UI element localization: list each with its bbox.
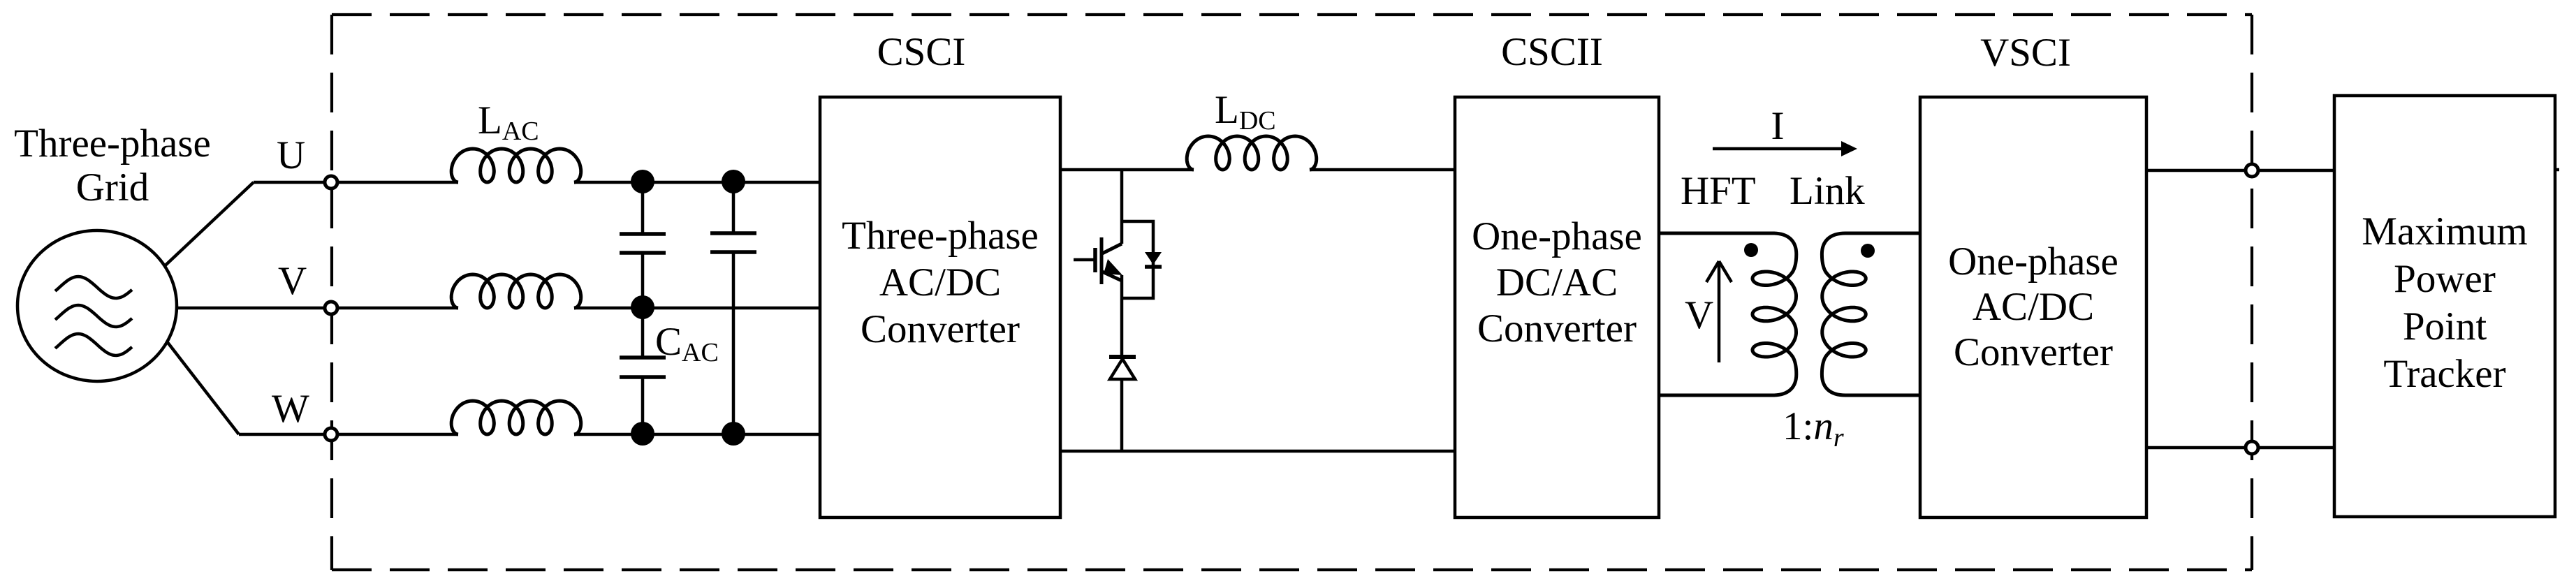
dashed boundary bottom <box>332 568 2252 571</box>
wire VSCI to MPPT bottom <box>2146 446 2334 450</box>
svg-text:DC/AC: DC/AC <box>1496 260 1618 304</box>
wire V left segment <box>331 307 458 310</box>
grid sine wave 2 <box>55 305 132 327</box>
IGBT Q1 gate bar <box>1093 248 1097 272</box>
wire grid to node U (angled) <box>157 182 254 273</box>
capacitor C_AC 2 (V-W) plates <box>620 355 666 360</box>
svg-text:One-phase: One-phase <box>1472 214 1642 258</box>
capacitor branch right vertical segments <box>732 182 736 233</box>
svg-text:AC/DC: AC/DC <box>1973 285 2094 329</box>
svg-text:CSCI: CSCI <box>877 30 966 74</box>
inductor L_DC <box>1187 136 1317 170</box>
diode D1 (antiparallel) <box>1145 252 1162 265</box>
svg-text:Point: Point <box>2403 304 2487 348</box>
dashed boundary left <box>330 15 333 570</box>
svg-text:Grid: Grid <box>76 166 149 209</box>
svg-text:AC/DC: AC/DC <box>879 260 1001 304</box>
svg-text:HFT: HFT <box>1681 169 1756 213</box>
svg-text:V: V <box>278 259 307 303</box>
capacitor branch left vertical segments <box>641 182 645 234</box>
svg-text:Converter: Converter <box>1954 330 2113 374</box>
wire DC+ rail L_DC to CSCII <box>1310 168 1455 172</box>
wire VSCI to MPPT top <box>2146 169 2334 172</box>
svg-text:Converter: Converter <box>861 307 1020 351</box>
svg-text:One-phase: One-phase <box>1948 240 2118 284</box>
svg-text:Three-phase: Three-phase <box>842 214 1039 258</box>
IGBT Q1 gate lead <box>1074 258 1094 262</box>
svg-text:Link: Link <box>1790 169 1865 213</box>
wire grid to node W (angled) <box>157 329 239 434</box>
wire grid to node V <box>171 307 331 310</box>
three-phase grid source G1 (circle) <box>17 230 177 381</box>
wire W left segment <box>239 433 458 436</box>
IGBT Q1 emitter lead with arrow <box>1102 272 1122 281</box>
svg-text:CSCII: CSCII <box>1501 30 1603 74</box>
transformer primary polarity dot <box>1744 243 1758 257</box>
wire stub MPPT right edge <box>2555 168 2559 172</box>
grid sine wave 1 <box>55 277 132 298</box>
wire DC+ rail CSCI to L_DC <box>1060 168 1194 172</box>
wire U right segment <box>574 181 820 184</box>
dashed boundary right <box>2251 15 2253 570</box>
junction dot (920,622) <box>631 422 654 446</box>
wire IGBT emitter vertical <box>1120 275 1124 298</box>
capacitor C_AC 3 (U-W) plates <box>710 231 756 235</box>
block CSCII rectangle <box>1455 97 1659 517</box>
junction dot (1050,622) <box>722 422 745 446</box>
junction dot (920,261) <box>631 170 654 193</box>
transformer secondary polarity dot <box>1861 244 1875 258</box>
grid sine wave 3 <box>55 334 132 355</box>
svg-text:V: V <box>1685 293 1713 337</box>
svg-text:Power: Power <box>2394 257 2496 301</box>
IGBT Q1 collector lead <box>1102 244 1122 253</box>
wire antiparallel branch <box>1122 221 1153 298</box>
wire to diode D2 <box>1120 298 1124 357</box>
junction dot (1050,261) <box>722 170 745 193</box>
inductor L_AC phase V <box>451 274 581 308</box>
svg-text:Tracker: Tracker <box>2383 352 2505 396</box>
wire diode D2 to DC- rail <box>1120 381 1124 451</box>
transformer HFT secondary winding <box>1822 233 1920 395</box>
wire IGBT branch top vertical <box>1120 170 1124 244</box>
wire DC- rail CSCI to CSCII <box>1060 450 1455 453</box>
block CSCI rectangle <box>820 97 1060 517</box>
terminal node output bottom <box>2246 441 2258 454</box>
diode D2 (freewheeling) <box>1109 355 1136 359</box>
junction dot (920,441) <box>631 295 654 319</box>
block MPPT rectangle <box>2334 96 2555 517</box>
wire V right segment <box>574 307 820 310</box>
svg-text:Converter: Converter <box>1477 307 1637 351</box>
svg-text:Maximum: Maximum <box>2362 209 2528 253</box>
wire U left segment <box>254 181 458 184</box>
terminal node output top <box>2246 164 2258 177</box>
capacitor C_AC 1 (U-V) plates <box>620 232 666 236</box>
dashed boundary top <box>332 13 2252 16</box>
svg-text:I: I <box>1771 104 1785 148</box>
svg-text:VSCI: VSCI <box>1980 31 2071 75</box>
svg-text:U: U <box>277 133 305 177</box>
IGBT Q1 body bar <box>1100 237 1104 284</box>
block VSCI rectangle <box>1920 97 2146 517</box>
wire W right segment <box>574 433 820 436</box>
terminal node U <box>325 176 337 189</box>
transformer HFT primary winding <box>1659 233 1796 395</box>
svg-text:W: W <box>272 387 309 431</box>
inductor L_AC phase W <box>451 401 581 434</box>
terminal node W <box>325 428 337 441</box>
inductor L_AC phase U <box>451 149 581 182</box>
terminal node V <box>325 302 337 314</box>
svg-text:Three-phase: Three-phase <box>14 122 211 166</box>
